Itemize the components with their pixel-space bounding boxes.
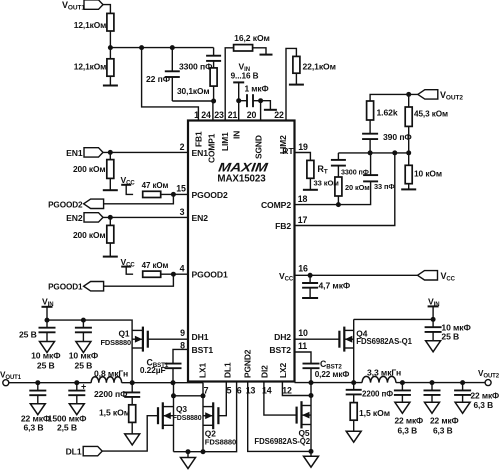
svg-text:4: 4 xyxy=(180,264,185,274)
node PGOOD1 junction xyxy=(171,272,176,277)
svg-text:15: 15 xyxy=(176,183,186,193)
svg-text:12: 12 xyxy=(282,386,292,396)
svg-text:LX1: LX1 xyxy=(198,362,208,378)
capacitor 4,7 uF xyxy=(309,275,311,283)
ground (triangle) input cap ch2 xyxy=(426,341,441,352)
node ground bus Q2 xyxy=(201,449,206,454)
svg-text:1 мкФ: 1 мкФ xyxy=(245,84,269,94)
svg-text:2,5 В: 2,5 В xyxy=(57,423,77,433)
node 22pF top xyxy=(170,45,175,50)
svg-text:47 кОм: 47 кОм xyxy=(142,261,169,270)
wire DL1 tag to Q3 gate xyxy=(102,416,158,451)
svg-text:LIM1: LIM1 xyxy=(220,132,230,151)
terminal VOUT2 (output channel 2) xyxy=(485,380,491,386)
output tag Vcc xyxy=(418,271,438,280)
capacitor 10 uF 25V (input ch2) xyxy=(432,319,434,327)
wire to signal ground bar xyxy=(261,101,271,110)
wire DH2 pin 10 to Q4 gate xyxy=(295,338,340,340)
ground (triangle) power ground 2 xyxy=(310,451,312,456)
svg-text:DH2: DH2 xyxy=(274,332,291,342)
wire FB1 node rail xyxy=(110,47,213,49)
svg-text:12,1кОм: 12,1кОм xyxy=(74,62,107,72)
svg-text:22 мкФ: 22 мкФ xyxy=(430,415,459,425)
ground (bar) for 10 kOhm xyxy=(401,188,416,190)
svg-text:18: 18 xyxy=(298,194,308,204)
terminal tag VOUT1 xyxy=(84,0,103,9)
svg-text:12,1кОм: 12,1кОм xyxy=(74,20,107,30)
svg-text:DH1: DH1 xyxy=(192,332,209,342)
svg-text:10 мкФ: 10 мкФ xyxy=(31,351,61,361)
svg-text:EN1: EN1 xyxy=(66,148,83,158)
wire EN2 to pin 3 xyxy=(103,216,188,218)
capacitor 10 uF 25V (input 2) xyxy=(82,320,84,328)
svg-text:SGND: SGND xyxy=(254,135,264,159)
resistor 200 kOhm (EN2) xyxy=(109,217,111,225)
wire PGOOD1 pin 4 xyxy=(161,273,188,275)
capacitor 22 uF 6,3V (out ch2 #2) xyxy=(431,383,433,391)
svg-text:DL1: DL1 xyxy=(223,362,233,378)
svg-text:22,1кОм: 22,1кОм xyxy=(303,61,336,71)
node FB1 branch xyxy=(139,45,144,50)
svg-text:10: 10 xyxy=(298,328,308,338)
svg-text:0.22µF: 0.22µF xyxy=(140,365,166,375)
svg-text:19: 19 xyxy=(298,142,308,152)
resistor 1,5 kOhm (snubber 1) xyxy=(131,397,133,405)
capacitor 2200 pF (snubber 1) xyxy=(131,383,133,393)
wire PGOOD2 pin 15 xyxy=(161,193,188,195)
node LX2 Cbst2 junction xyxy=(309,380,314,385)
resistor 16,2 kOhm (LIM1) xyxy=(225,48,233,121)
svg-text:FB2: FB2 xyxy=(275,221,291,231)
wire EN1 to pin 2 xyxy=(103,151,188,153)
svg-text:PGOOD2: PGOOD2 xyxy=(48,200,83,209)
svg-text:3300 пФ: 3300 пФ xyxy=(179,61,213,71)
wire DH1 gate to pin 9 xyxy=(148,338,188,340)
ground (bar) for 16,2 kOhm xyxy=(260,54,273,56)
svg-text:COMP1: COMP1 xyxy=(207,133,217,163)
output tag PGOOD2 xyxy=(84,199,104,208)
svg-text:16,2 кОм: 16,2 кОм xyxy=(234,33,270,43)
svg-text:33 пФ: 33 пФ xyxy=(374,182,395,191)
svg-text:LIM2: LIM2 xyxy=(278,135,288,154)
node EN2 pulldown xyxy=(108,215,113,220)
svg-text:PGOOD1: PGOOD1 xyxy=(192,270,228,280)
svg-text:PGND2: PGND2 xyxy=(243,349,253,378)
svg-text:2: 2 xyxy=(180,142,185,152)
capacitor CBST1 0.22uF xyxy=(165,363,182,365)
svg-text:47 кОм: 47 кОм xyxy=(142,181,169,190)
ground (triangle) input cap 1 xyxy=(40,342,55,353)
resistor 47 kOhm (PGOOD1) xyxy=(143,271,161,277)
svg-text:BST2: BST2 xyxy=(269,345,291,355)
wire LX2 rail xyxy=(295,382,363,384)
svg-text:0,22 мкФ: 0,22 мкФ xyxy=(315,370,350,379)
wire LX1 pin 7 down to low-side drains xyxy=(202,383,204,396)
resistor 1,5 kOhm (snubber 2) xyxy=(353,394,355,402)
node 10k top xyxy=(406,150,411,155)
svg-text:22 мкФ: 22 мкФ xyxy=(395,415,424,425)
node VIN cap channel 2 xyxy=(431,317,436,322)
svg-text:10 мкФ: 10 мкФ xyxy=(69,351,99,361)
node 45,3k top xyxy=(406,92,411,97)
capacitor 3300 pF (COMP1) xyxy=(213,48,215,56)
svg-text:25 В: 25 В xyxy=(441,332,459,342)
svg-text:25 В: 25 В xyxy=(37,361,55,371)
capacitor 1 uF (IN bypass) xyxy=(239,100,247,102)
svg-text:1,5 кОм: 1,5 кОм xyxy=(99,407,130,417)
svg-text:200 кОм: 200 кОм xyxy=(73,164,106,174)
ground (bar) under divider xyxy=(103,85,118,87)
svg-text:1: 1 xyxy=(194,110,199,120)
capacitor 390 pF xyxy=(369,120,371,134)
svg-text:20: 20 xyxy=(247,110,257,120)
svg-text:9: 9 xyxy=(180,328,185,338)
wire COMP2 pin 18 xyxy=(296,204,339,206)
capacitor 22 uF 6,3V (out 1) xyxy=(37,383,39,391)
svg-text:200 кОм: 200 кОм xyxy=(73,230,106,240)
svg-text:22: 22 xyxy=(274,110,284,120)
svg-text:IN: IN xyxy=(231,131,241,139)
node output cap 1500uF xyxy=(74,380,79,385)
terminal VOUT1 (output channel 1) xyxy=(3,380,9,386)
ground (triangle) out ch2 #1 xyxy=(395,402,410,413)
svg-text:25 В: 25 В xyxy=(75,361,93,371)
svg-text:33 кОм: 33 кОм xyxy=(314,179,340,188)
resistor 22,1 kOhm (LIM2) xyxy=(286,48,296,120)
node SGND junction xyxy=(258,98,263,103)
ground (triangle) power ground 1 xyxy=(187,452,189,458)
svg-text:DL1: DL1 xyxy=(66,447,82,457)
wire Q5 drain vertical xyxy=(310,383,312,452)
node COMP1 junction xyxy=(211,99,216,104)
wire VOUT1 tag to divider xyxy=(103,5,110,14)
node PGOOD2 junction xyxy=(171,192,176,197)
wire PGOOD1 to tag xyxy=(103,274,173,286)
ground (triangle) out ch2 #2 xyxy=(425,402,440,413)
ground (bar) for EN1 resistor xyxy=(103,189,118,191)
wire VOUT2 rail xyxy=(396,382,485,384)
wire IN pin 21 xyxy=(238,101,240,121)
node LX1 Cbst junction xyxy=(171,380,176,385)
svg-text:30,1кОм: 30,1кОм xyxy=(177,86,210,96)
svg-text:Q3: Q3 xyxy=(176,404,187,414)
ground (triangle) out cap 22uF xyxy=(30,404,45,415)
node low-side drain junction xyxy=(201,393,206,398)
resistor RT 33 kOhm xyxy=(296,153,311,161)
node output cap 22uF xyxy=(35,380,40,385)
node out cap ch2 #1 xyxy=(400,380,405,385)
wire DL1 pin 5 to Q2 gate xyxy=(218,382,226,416)
wire PGND1 pin 6 xyxy=(203,382,237,452)
svg-text:23: 23 xyxy=(214,110,224,120)
svg-text:22 пФ: 22 пФ xyxy=(146,74,171,84)
terminal tag VOUT2 (top) xyxy=(418,90,438,99)
node Q3 drain xyxy=(171,393,176,398)
node VIN cap 2 xyxy=(81,318,86,323)
capacitor 3300 pF (COMP2) xyxy=(337,153,339,160)
svg-text:1,5 кОм: 1,5 кОм xyxy=(359,408,390,418)
svg-text:PGOOD1: PGOOD1 xyxy=(48,283,83,292)
input tag DL1 xyxy=(83,446,102,455)
svg-text:PGOOD2: PGOOD2 xyxy=(192,190,228,200)
wire COMP1 lower rail to pin 24 xyxy=(172,101,213,121)
svg-text:6,3 В: 6,3 В xyxy=(433,425,453,435)
wire FB1 to pin 1 xyxy=(142,48,199,121)
svg-text:4,7 мкФ: 4,7 мкФ xyxy=(319,281,351,291)
svg-text:10 кОм: 10 кОм xyxy=(414,168,442,178)
resistor 20 kOhm (COMP2) xyxy=(337,166,339,177)
wire FB2 to pin 17 xyxy=(296,153,395,226)
wire VOUT2 tag rail xyxy=(370,94,418,103)
svg-text:1.62k: 1.62k xyxy=(377,108,398,118)
svg-text:FDS8880: FDS8880 xyxy=(173,415,202,422)
node out cap ch2 #2 xyxy=(430,380,435,385)
ground (bar) for RT xyxy=(303,189,318,191)
resistor 1.62k xyxy=(367,101,374,120)
node FB2 tap xyxy=(392,150,397,155)
capacitor 2200 pF (snubber 2) xyxy=(353,383,355,390)
wire VIN rail channel 1 xyxy=(47,319,132,321)
wire BST1 pin 8 to Cbst1 xyxy=(173,349,188,363)
svg-text:EN2: EN2 xyxy=(192,213,209,223)
svg-text:20 кОм: 20 кОм xyxy=(345,183,370,192)
svg-text:6,3 В: 6,3 В xyxy=(23,423,43,433)
svg-text:2200 пФ: 2200 пФ xyxy=(94,389,128,399)
svg-text:FB1: FB1 xyxy=(193,131,203,147)
ground (triangle) out ch2 #3 xyxy=(455,402,470,413)
node FB1 divider junction xyxy=(108,45,113,50)
ground (triangle) 1500uF xyxy=(69,404,84,415)
node LX2 Q4 source xyxy=(351,380,356,385)
wire drain tie Q3-Q2 xyxy=(174,395,204,397)
node Vcc bypass xyxy=(308,273,313,278)
node IN junction xyxy=(236,98,241,103)
svg-text:FDS6982AS-Q2: FDS6982AS-Q2 xyxy=(254,437,310,446)
wire PGND2 pin 13 xyxy=(248,382,311,452)
wire Vcc pin 16 to tag xyxy=(295,274,418,276)
svg-text:6: 6 xyxy=(237,386,242,396)
svg-text:5: 5 xyxy=(227,386,232,396)
svg-text:3: 3 xyxy=(180,207,185,217)
node out cap ch2 #3 xyxy=(460,380,465,385)
resistor 12,1 kOhm (upper) xyxy=(107,13,114,31)
svg-text:COMP2: COMP2 xyxy=(261,200,291,210)
wire VOUT1 rail xyxy=(9,382,91,384)
ground (bar) for 22,1 kOhm xyxy=(289,84,304,86)
node EN1 pulldown xyxy=(108,150,113,155)
svg-text:9...16 В: 9...16 В xyxy=(231,71,259,80)
wire DL2 pin 14 to Q5 gate xyxy=(264,382,297,416)
wire LX1 rail xyxy=(122,382,203,384)
node LX2 drain junction xyxy=(309,393,314,398)
capacitor 22 pF xyxy=(171,48,173,72)
svg-text:45,3 кОм: 45,3 кОм xyxy=(414,110,448,119)
node power ground 2 xyxy=(309,449,314,454)
svg-text:DI2: DI2 xyxy=(260,365,270,378)
wire to ground xyxy=(109,76,111,85)
capacitor 10 uF 25V (input 1) xyxy=(46,320,48,328)
svg-text:2200 пФ: 2200 пФ xyxy=(362,389,393,398)
svg-text:6,3 В: 6,3 В xyxy=(474,400,494,410)
output tag PGOOD1 xyxy=(84,282,104,291)
input tag EN1 xyxy=(84,148,103,157)
node VIN cap 1 xyxy=(45,318,50,323)
ground (bar) for EN2 resistor xyxy=(103,256,118,258)
node ground bus mid xyxy=(186,449,191,454)
wire LIM1 resistor to ground xyxy=(253,48,266,55)
wire VIN rail channel 2 xyxy=(354,318,433,320)
resistor 30,1 kOhm (COMP1) xyxy=(213,61,215,68)
wire LX2 pin 12 elbow xyxy=(282,382,311,396)
resistor 47 kOhm (PGOOD2) xyxy=(143,191,161,197)
wire BST2 pin 11 to Cbst2 xyxy=(295,352,312,364)
svg-text:16: 16 xyxy=(298,263,308,273)
resistor 10 kOhm xyxy=(408,153,410,165)
capacitor 22 uF 6,3V (out ch2 #1) xyxy=(401,383,403,391)
node feedforward junction xyxy=(368,150,373,155)
wire divider mid xyxy=(109,31,111,59)
capacitor 22 uF 6,3V (out ch2 #3) xyxy=(462,383,464,391)
node COMP2 junction xyxy=(336,202,341,207)
svg-text:11: 11 xyxy=(298,341,307,351)
svg-text:6,3 В: 6,3 В xyxy=(398,425,418,435)
resistor 45,3 kOhm xyxy=(408,94,410,107)
svg-text:MAX15023: MAX15023 xyxy=(217,174,266,185)
input tag EN2 xyxy=(84,213,103,222)
op-amp U1 MAX15023 IC body xyxy=(188,121,295,382)
svg-text:MAXIM: MAXIM xyxy=(217,161,269,175)
svg-text:FDS8880: FDS8880 xyxy=(205,437,236,446)
svg-text:FDS6982AS-Q1: FDS6982AS-Q1 xyxy=(356,337,412,346)
svg-text:BST1: BST1 xyxy=(192,345,214,355)
resistor 200 kOhm (EN1) xyxy=(109,152,111,159)
ground (bar) for 4,7 uF xyxy=(302,297,318,299)
svg-text:EN2: EN2 xyxy=(66,213,83,223)
wire SGND pin 20 xyxy=(260,101,262,121)
resistor 12,1 kOhm (lower) xyxy=(107,59,114,76)
capacitor CBST2 0,22 uF xyxy=(303,363,320,365)
node LX1 inductor junction xyxy=(130,380,135,385)
svg-text:LX2: LX2 xyxy=(278,362,288,378)
ground (triangle) snubber 1 xyxy=(125,434,140,445)
wire PGOOD2 to tag xyxy=(103,194,173,203)
ground (triangle) snubber 2 xyxy=(346,431,361,442)
ground (triangle) input cap 2 xyxy=(76,342,91,353)
svg-text:Q1: Q1 xyxy=(119,328,130,338)
svg-text:21: 21 xyxy=(228,110,238,120)
svg-text:24: 24 xyxy=(201,110,211,120)
capacitor 33 pF (COMP2 parallel) xyxy=(338,181,370,204)
ground (bar) for 1uF xyxy=(264,109,277,111)
wire source ground bus 1 xyxy=(174,451,204,453)
svg-text:FDS8880: FDS8880 xyxy=(100,338,131,347)
svg-text:25 В: 25 В xyxy=(19,330,37,340)
wire FB2 divider node rail xyxy=(338,152,408,154)
svg-text:22 мкФ: 22 мкФ xyxy=(471,390,500,400)
svg-text:17: 17 xyxy=(298,215,308,225)
